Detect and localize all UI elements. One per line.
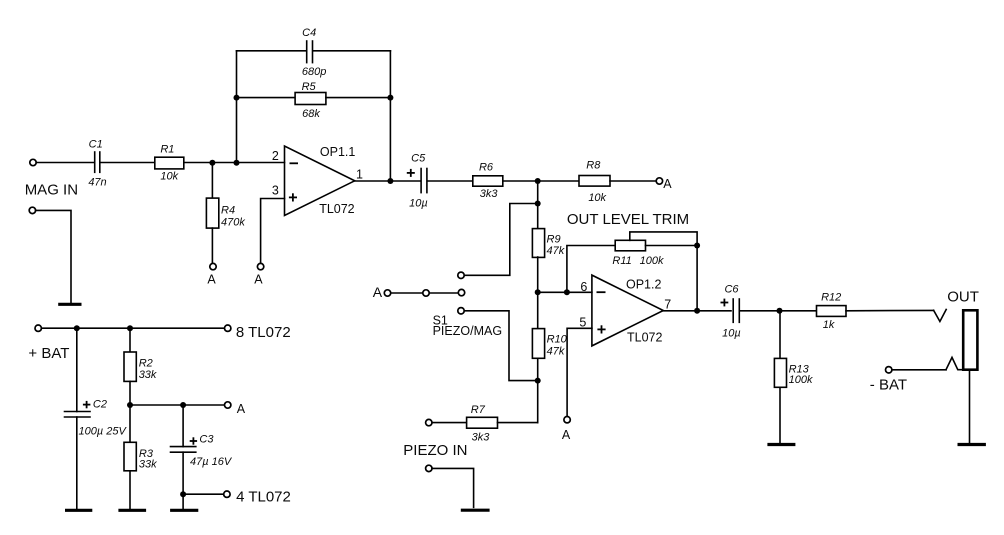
junction [74, 325, 80, 331]
svg-text:R12: R12 [821, 292, 841, 304]
svg-text:TL072: TL072 [627, 331, 662, 345]
wire [236, 51, 238, 163]
junction [535, 378, 541, 384]
svg-text:TL072: TL072 [319, 202, 354, 216]
wire [537, 381, 539, 423]
resistor R8 [579, 160, 610, 204]
terminal +BAT [35, 325, 41, 331]
svg-text:R11: R11 [612, 255, 631, 267]
wire [892, 369, 946, 371]
node A terminal [564, 417, 570, 423]
wire [432, 468, 474, 507]
resistor R2 [124, 328, 157, 405]
svg-text:3k3: 3k3 [472, 432, 491, 444]
svg-text:6: 6 [580, 280, 587, 294]
svg-text:33k: 33k [139, 369, 157, 381]
wire [846, 309, 934, 311]
junction [564, 289, 570, 295]
svg-text:680p: 680p [302, 66, 326, 78]
wire [503, 180, 579, 182]
svg-text:PIEZO/MAG: PIEZO/MAG [433, 324, 502, 338]
svg-text:47k: 47k [547, 345, 565, 357]
op-amp U1 OP1.1 [272, 145, 363, 216]
svg-text:100k: 100k [789, 374, 813, 386]
svg-text:C1: C1 [89, 138, 103, 150]
wire [183, 493, 224, 495]
wire [184, 162, 285, 164]
wire pin 5 [567, 328, 592, 416]
svg-text:R4: R4 [221, 205, 235, 217]
MAG ground terminal [29, 207, 35, 213]
jack sleeve contact [946, 357, 963, 369]
svg-text:PIEZO IN: PIEZO IN [403, 442, 467, 459]
svg-text:C5: C5 [411, 152, 426, 164]
wire [313, 50, 390, 52]
capacitor C6 [721, 284, 741, 340]
junction [127, 325, 133, 331]
wire [464, 311, 537, 381]
svg-text:R9: R9 [547, 233, 561, 245]
resistor R5 [295, 81, 326, 120]
svg-text:OUT: OUT [947, 288, 979, 305]
wire [428, 180, 473, 182]
svg-text:C6: C6 [724, 284, 739, 296]
svg-text:8 TL072: 8 TL072 [236, 324, 291, 341]
resistor R1 [155, 143, 184, 182]
junction [180, 402, 186, 408]
wire [41, 327, 224, 329]
svg-text:OUT LEVEL TRIM: OUT LEVEL TRIM [567, 211, 689, 228]
svg-text:10µ: 10µ [409, 198, 428, 210]
capacitor C4 [302, 27, 326, 78]
wire [537, 181, 539, 204]
op-amp U1 OP1.2 [579, 275, 671, 346]
wire pin 3 [261, 199, 285, 264]
svg-text:1k: 1k [823, 319, 835, 331]
junction [535, 178, 541, 184]
svg-text:A: A [207, 272, 216, 286]
wire [237, 50, 307, 52]
wire [101, 162, 155, 164]
wire [237, 97, 296, 99]
svg-text:OP1.1: OP1.1 [320, 145, 355, 159]
svg-text:R6: R6 [479, 162, 494, 174]
wire [130, 404, 224, 406]
ground [958, 443, 986, 446]
junction [694, 243, 700, 249]
PIEZO ground terminal [426, 465, 432, 471]
terminal 4 TL072 [224, 491, 230, 497]
svg-text:A: A [237, 402, 246, 416]
ground [65, 509, 92, 512]
wire [969, 370, 971, 443]
wire [389, 51, 391, 181]
svg-text:R5: R5 [302, 81, 317, 93]
svg-text:47µ 16V: 47µ 16V [190, 456, 233, 468]
resistor R12 [817, 292, 847, 331]
ground [461, 509, 490, 512]
wire [740, 310, 817, 312]
junction [535, 201, 541, 207]
svg-text:A: A [562, 428, 571, 442]
junction [387, 178, 393, 184]
svg-text:A: A [254, 272, 263, 286]
node A terminal [656, 178, 662, 184]
junction [387, 95, 393, 101]
svg-text:R2: R2 [139, 358, 153, 370]
wire [663, 310, 731, 312]
node A terminal [210, 263, 216, 269]
svg-text:C4: C4 [302, 27, 316, 39]
wire [465, 204, 538, 276]
svg-text:C3: C3 [199, 433, 214, 445]
svg-text:R8: R8 [586, 160, 601, 172]
resistor R10 [532, 292, 567, 380]
svg-text:A: A [373, 284, 383, 300]
resistor R7 [426, 404, 538, 444]
terminal 8 TL072 [225, 325, 231, 331]
wire [696, 246, 698, 311]
svg-text:R7: R7 [471, 404, 486, 416]
switch S1 [373, 272, 502, 338]
jack OUT [947, 288, 979, 369]
svg-text:100k: 100k [640, 255, 664, 267]
wire [355, 180, 421, 182]
svg-text:OP1.2: OP1.2 [626, 277, 661, 291]
junction [234, 95, 240, 101]
resistor R13 [774, 311, 813, 443]
junction [180, 491, 186, 497]
svg-text:47k: 47k [547, 245, 565, 257]
wire [36, 210, 71, 302]
svg-text:1: 1 [356, 168, 363, 182]
resistor R4 [206, 163, 245, 264]
junction [535, 289, 541, 295]
svg-text:10k: 10k [160, 171, 178, 183]
svg-text:- BAT: - BAT [870, 377, 907, 394]
svg-text:2: 2 [272, 149, 279, 163]
resistor R3 [124, 405, 157, 509]
wire [610, 180, 656, 182]
resistor R9 [532, 204, 564, 293]
svg-text:A: A [663, 177, 672, 191]
terminal -BAT [886, 367, 892, 373]
svg-text:47n: 47n [88, 177, 106, 189]
capacitor C1 [88, 138, 106, 188]
svg-text:R1: R1 [160, 143, 174, 155]
wire [36, 162, 94, 164]
svg-text:100µ 25V: 100µ 25V [79, 426, 128, 438]
trimmer R11 [567, 232, 697, 292]
node A terminal [257, 263, 263, 269]
capacitor C2 [65, 328, 128, 509]
svg-text:R10: R10 [547, 333, 568, 345]
svg-text:+ BAT: + BAT [28, 345, 69, 362]
svg-text:4 TL072: 4 TL072 [236, 488, 291, 505]
ground [118, 509, 146, 512]
svg-text:10µ: 10µ [722, 327, 741, 339]
svg-text:C2: C2 [93, 399, 107, 411]
svg-text:3k3: 3k3 [480, 188, 499, 200]
svg-text:3: 3 [272, 184, 279, 198]
svg-text:470k: 470k [221, 217, 245, 229]
svg-text:33k: 33k [139, 458, 157, 470]
ground [767, 443, 795, 446]
junction [234, 160, 240, 166]
MAG input terminal [30, 159, 36, 165]
wire [326, 97, 391, 99]
terminal A [225, 402, 231, 408]
junction [209, 160, 215, 166]
svg-text:7: 7 [664, 298, 671, 312]
ground [170, 509, 198, 512]
ground [58, 303, 81, 306]
wire pin 6 [538, 291, 592, 293]
junction [127, 402, 133, 408]
svg-text:10k: 10k [588, 192, 606, 204]
svg-text:MAG IN: MAG IN [25, 182, 78, 199]
svg-text:5: 5 [579, 315, 586, 329]
svg-text:68k: 68k [302, 108, 320, 120]
junction [694, 308, 700, 314]
jack tip contact [934, 310, 947, 322]
capacitor C5 [407, 152, 428, 209]
resistor R6 [473, 162, 503, 201]
capacitor C3 [171, 405, 233, 509]
junction [777, 308, 783, 314]
